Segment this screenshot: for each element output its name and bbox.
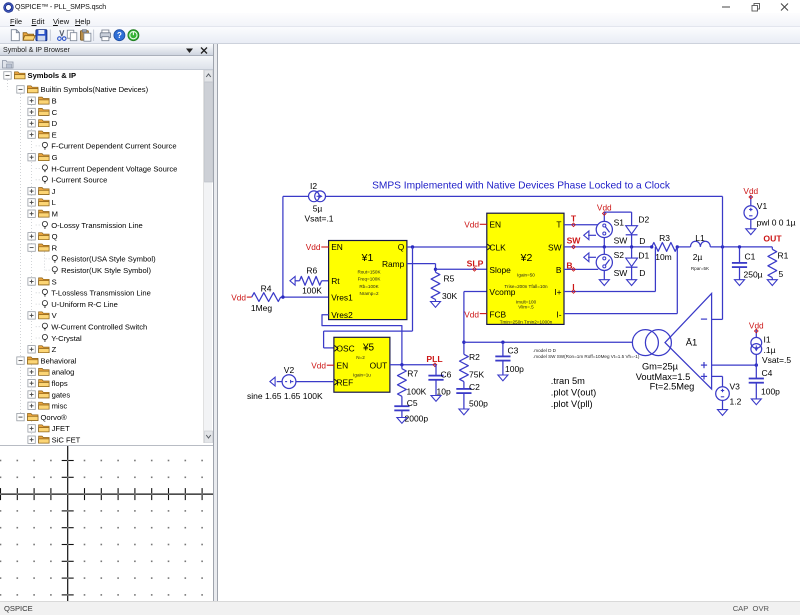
svg-text:Vdd: Vdd [464, 219, 479, 229]
svg-text:O-Lossy Transmission Line: O-Lossy Transmission Line [51, 221, 143, 230]
svg-text:Vres2: Vres2 [331, 310, 353, 320]
svg-text:Vres1: Vres1 [331, 292, 353, 302]
svg-text:30K: 30K [442, 291, 457, 301]
svg-text:gates: gates [52, 390, 71, 399]
svg-text:Vdd: Vdd [464, 309, 479, 319]
svg-text:CLK: CLK [489, 242, 506, 252]
svg-text:B: B [566, 260, 572, 270]
svg-text:B: B [52, 97, 57, 106]
svg-text:T-Lossless Transmission Line: T-Lossless Transmission Line [51, 289, 151, 298]
svg-text:R5: R5 [444, 274, 455, 284]
svg-text:Ā1: Ā1 [686, 338, 698, 349]
svg-text:Vsat=.5: Vsat=.5 [762, 355, 791, 365]
svg-text:T: T [571, 214, 577, 224]
svg-text:VoutMax=1.5: VoutMax=1.5 [636, 372, 691, 382]
svg-text:OUT: OUT [763, 233, 782, 243]
svg-text:I1: I1 [764, 335, 771, 345]
svg-text:R1: R1 [778, 250, 789, 260]
svg-text:C1: C1 [745, 251, 756, 261]
svg-text:1.2: 1.2 [730, 397, 742, 407]
svg-text:Vsat=.1: Vsat=.1 [304, 214, 333, 224]
svg-text:100p: 100p [761, 386, 780, 396]
svg-text:Rpar=5K: Rpar=5K [691, 266, 710, 271]
svg-text:V: V [52, 311, 58, 320]
svg-text:J: J [52, 187, 56, 196]
svg-text:250µ: 250µ [744, 269, 763, 279]
svg-text:C5: C5 [407, 398, 418, 408]
svg-text:OUT: OUT [370, 360, 388, 370]
svg-text:PLL: PLL [426, 354, 442, 364]
svg-text:5: 5 [779, 269, 784, 279]
svg-text:Trise=200n Tfall=10n: Trise=200n Tfall=10n [504, 284, 548, 289]
svg-text:FCB: FCB [489, 309, 506, 319]
svg-text:100K: 100K [407, 386, 427, 396]
svg-text:Vlim=.5: Vlim=.5 [518, 304, 534, 309]
svg-text:Igain=50: Igain=50 [517, 272, 535, 277]
svg-text:D: D [639, 268, 645, 278]
svg-text:Vdd: Vdd [306, 242, 321, 252]
svg-text:C3: C3 [508, 345, 519, 355]
svg-text:Vdd: Vdd [743, 186, 758, 196]
svg-text:Igain=1u: Igain=1u [353, 372, 371, 377]
svg-text:?: ? [117, 31, 122, 40]
svg-text:EN: EN [489, 219, 501, 229]
svg-text:G: G [52, 153, 58, 162]
svg-text:U-Uniform R-C Line: U-Uniform R-C Line [51, 300, 118, 309]
svg-text:¥5: ¥5 [362, 342, 375, 353]
svg-text:V2: V2 [284, 365, 295, 375]
svg-text:Q: Q [52, 232, 58, 241]
svg-text:C: C [52, 108, 58, 117]
svg-text:W-Current Controlled Switch: W-Current Controlled Switch [51, 323, 147, 332]
svg-text:100K: 100K [302, 286, 322, 296]
svg-text:Symbols & IP: Symbols & IP [28, 71, 77, 80]
svg-text:.plot V(pll): .plot V(pll) [551, 399, 593, 409]
svg-text:misc: misc [52, 402, 68, 411]
svg-text:V3: V3 [730, 381, 741, 391]
svg-text:.model SW SW(Ron=1m Roff=10Meg: .model SW SW(Ron=1m Roff=10Meg Vt=1.5 Vh… [533, 354, 640, 359]
svg-text:SiC FET: SiC FET [52, 436, 81, 445]
svg-text:Ft=2.5Meg: Ft=2.5Meg [650, 382, 695, 392]
svg-text:Q: Q [398, 242, 405, 252]
svg-text:500p: 500p [469, 399, 488, 409]
svg-text:REF: REF [337, 377, 354, 387]
svg-text:Qorvo®: Qorvo® [41, 413, 68, 422]
svg-text:Ramp: Ramp [382, 259, 405, 269]
svg-text:I2: I2 [310, 181, 317, 191]
svg-text:JFET: JFET [52, 424, 71, 433]
svg-text:Y-Crystal: Y-Crystal [51, 334, 82, 343]
svg-text:Vdd: Vdd [597, 203, 612, 213]
svg-text:EN: EN [331, 242, 343, 252]
svg-text:¥1: ¥1 [361, 252, 374, 264]
svg-text:EN: EN [337, 360, 349, 370]
svg-text:I-: I- [556, 309, 561, 319]
svg-text:sine 1.65 1.65 100K: sine 1.65 1.65 100K [247, 391, 323, 401]
svg-text:R7: R7 [407, 369, 418, 379]
svg-text:SW: SW [614, 268, 628, 278]
svg-text:analog: analog [52, 368, 75, 377]
svg-text:Slope: Slope [489, 265, 511, 275]
svg-text:D: D [639, 236, 645, 246]
svg-text:SW: SW [567, 236, 582, 246]
svg-text:.tran 5m: .tran 5m [551, 376, 585, 386]
svg-text:C4: C4 [762, 368, 773, 378]
svg-text:Behavioral: Behavioral [41, 356, 77, 365]
svg-text:Nramp=2: Nramp=2 [359, 291, 378, 296]
svg-text:Z: Z [52, 345, 57, 354]
svg-text:Rb=100K: Rb=100K [359, 284, 379, 289]
svg-text:flops: flops [52, 379, 68, 388]
svg-text:I+: I+ [554, 287, 561, 297]
svg-text:SLP: SLP [467, 258, 484, 268]
svg-text:Vdd: Vdd [231, 292, 246, 302]
svg-text:C6: C6 [441, 369, 452, 379]
svg-text:pwl 0 0 1µ: pwl 0 0 1µ [757, 218, 796, 228]
svg-text:V1: V1 [757, 201, 768, 211]
svg-text:T: T [556, 219, 561, 229]
svg-text:SW: SW [614, 235, 628, 245]
svg-text:S: S [52, 277, 57, 286]
svg-text:.plot V(out): .plot V(out) [551, 388, 596, 398]
svg-text:L1: L1 [695, 233, 705, 243]
svg-text:D: D [52, 119, 58, 128]
svg-text:M: M [52, 210, 58, 219]
svg-text:5µ: 5µ [313, 204, 323, 214]
svg-text:N=2: N=2 [356, 355, 365, 360]
svg-text:100p: 100p [505, 364, 524, 374]
svg-text:2000p: 2000p [405, 413, 429, 423]
svg-text:.1µ: .1µ [764, 345, 776, 355]
svg-text:OSC: OSC [337, 344, 355, 354]
svg-text:I-Current Source: I-Current Source [51, 176, 107, 185]
svg-text:D2: D2 [638, 214, 649, 224]
svg-text:S2: S2 [614, 250, 625, 260]
svg-text:10p: 10p [437, 386, 451, 396]
svg-text:Rout=150K: Rout=150K [357, 269, 381, 274]
svg-text:SW: SW [548, 242, 562, 252]
svg-text:75K: 75K [469, 370, 484, 380]
svg-text:E: E [52, 130, 57, 139]
svg-text:Gm=25µ: Gm=25µ [642, 361, 679, 371]
svg-text:R: R [52, 243, 58, 252]
svg-text:D1: D1 [638, 251, 649, 261]
svg-text:F-Current Dependent Current So: F-Current Dependent Current Source [51, 142, 176, 151]
svg-text:Builtin Symbols(Native Devices: Builtin Symbols(Native Devices) [41, 85, 149, 94]
svg-text:1Meg: 1Meg [251, 303, 273, 313]
svg-text:Tmin=250n Tmin2=1000n: Tmin=250n Tmin2=1000n [500, 319, 553, 324]
svg-text:R4: R4 [261, 283, 272, 293]
svg-text:R3: R3 [659, 233, 670, 243]
svg-text:H-Current Dependent Voltage So: H-Current Dependent Voltage Source [51, 164, 177, 173]
svg-text:.model D D: .model D D [533, 348, 557, 353]
svg-text:SMPS Implemented with Native D: SMPS Implemented with Native Devices Pha… [372, 181, 671, 192]
svg-text:R6: R6 [306, 266, 317, 276]
svg-text:Resistor(USA Style Symbol): Resistor(USA Style Symbol) [61, 255, 156, 264]
svg-text:Resistor(UK Style Symbol): Resistor(UK Style Symbol) [61, 266, 151, 275]
svg-text:B: B [556, 265, 562, 275]
svg-text:Rt: Rt [331, 276, 340, 286]
svg-text:10m: 10m [655, 252, 672, 262]
svg-text:C2: C2 [469, 382, 480, 392]
svg-text:S1: S1 [614, 217, 625, 227]
svg-text:R2: R2 [469, 352, 480, 362]
svg-text:L: L [52, 198, 56, 207]
svg-text:2µ: 2µ [693, 252, 703, 262]
svg-text:Vdd: Vdd [311, 360, 326, 370]
svg-text:Freq=100K: Freq=100K [358, 277, 382, 282]
svg-text:¥2: ¥2 [520, 252, 533, 264]
